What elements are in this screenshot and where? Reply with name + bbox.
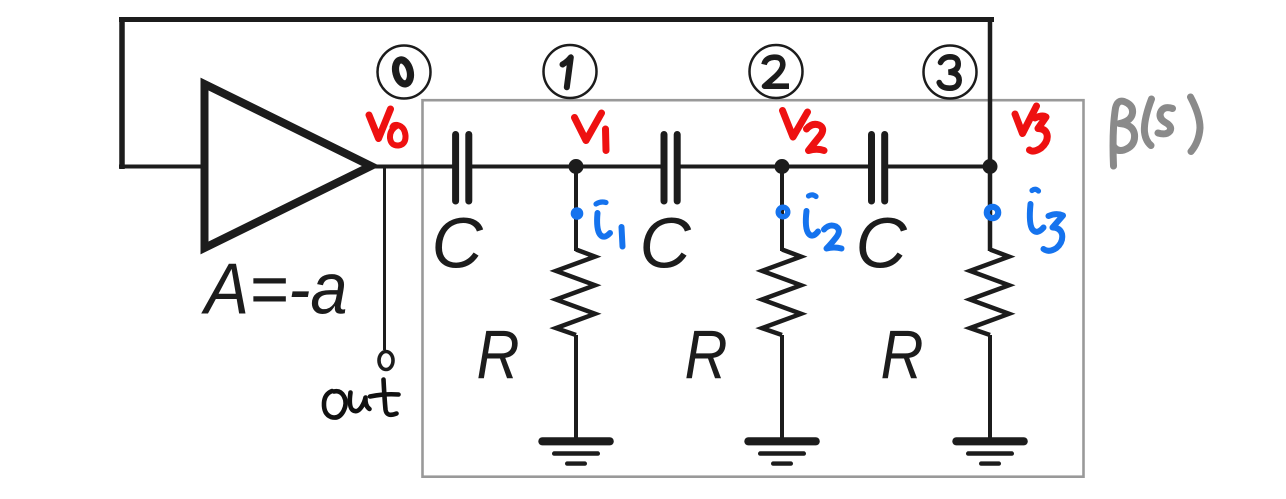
svg-text:R: R xyxy=(477,316,520,393)
svg-text:C: C xyxy=(432,205,484,284)
svg-text:A=-a: A=-a xyxy=(201,250,348,330)
svg-text:C: C xyxy=(856,205,908,284)
svg-text:C: C xyxy=(640,205,692,284)
svg-text:R: R xyxy=(881,316,924,393)
svg-text:R: R xyxy=(685,316,728,393)
